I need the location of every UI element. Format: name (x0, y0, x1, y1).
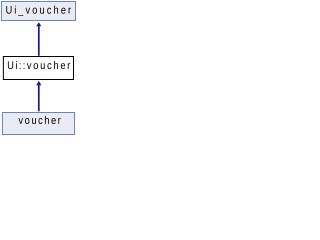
arrow shaft (wire) (38, 85, 40, 112)
arrow shaft (wire) (38, 26, 40, 56)
label Ui_voucher (6, 6, 71, 16)
inheritance arrow from voucher up to Ui::voucher (36, 81, 41, 111)
class box voucher (derived class, linked style) (2, 113, 74, 135)
arrowhead (36, 22, 41, 26)
label voucher (19, 116, 61, 124)
arrowhead (36, 81, 41, 85)
class box Ui_voucher (base class, linked style) (2, 2, 76, 21)
label Ui::voucher (8, 61, 70, 69)
inheritance arrow from Ui::voucher up to Ui_voucher (36, 22, 41, 56)
class box Ui::voucher (current class) (3, 57, 73, 80)
